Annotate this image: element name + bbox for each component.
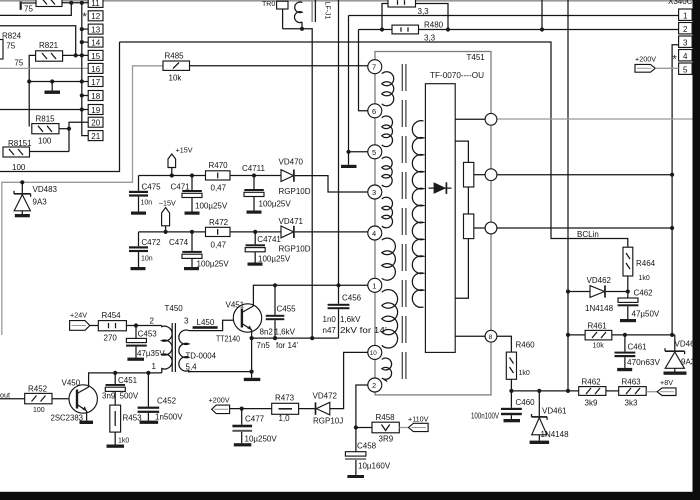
svg-text:8: 8 [489, 334, 493, 341]
svg-text:100n100V: 100n100V [471, 411, 500, 420]
svg-text:100: 100 [33, 407, 45, 414]
svg-text:R473: R473 [275, 394, 295, 403]
svg-text:TT2140: TT2140 [216, 335, 240, 344]
svg-text:R463: R463 [622, 378, 642, 387]
T451 pin 3 [368, 185, 382, 199]
svg-text:R821: R821 [39, 41, 59, 50]
T451 pin 4 [368, 226, 382, 240]
svg-text:1,6kV: 1,6kV [340, 315, 361, 324]
transformer T451 box [375, 52, 491, 395]
svg-text:R452: R452 [28, 385, 48, 394]
resistor R464 1k0 [623, 247, 656, 293]
svg-text:R815: R815 [36, 115, 56, 124]
T451 secondary terminal 2 [485, 169, 497, 181]
wire R452 to base [52, 398, 77, 400]
diode VD470 RGP10D [279, 158, 311, 197]
svg-text:C453: C453 [138, 330, 158, 339]
transistor V451 TT2140 [216, 301, 262, 344]
svg-text:75: 75 [14, 59, 23, 68]
svg-text:0,47: 0,47 [211, 241, 227, 250]
wire pin13 [82, 28, 88, 30]
wire flyback mid terminal to pin3line [497, 174, 672, 176]
svg-text:T451: T451 [467, 53, 486, 62]
ground T451 pin5 [341, 152, 357, 168]
power +200V tag top [635, 55, 679, 73]
svg-text:VD472: VD472 [313, 392, 338, 401]
svg-text:for 14’: for 14’ [276, 341, 298, 350]
capacitor C4711 100u25V [242, 164, 291, 214]
T451 pin 8 [485, 330, 497, 342]
svg-text:3: 3 [372, 188, 376, 197]
power -15V tag [159, 199, 176, 234]
resistor R824 (edge sliver) [0, 32, 24, 68]
svg-text:+200V: +200V [209, 396, 230, 405]
svg-text:10k: 10k [593, 343, 605, 350]
svg-text:X340C: X340C [668, 0, 693, 6]
svg-text:2SC2383: 2SC2383 [51, 414, 84, 423]
wire R485 to T451 pin7 [190, 65, 369, 67]
wire R472 out [230, 230, 281, 234]
ground pin17 net [45, 82, 61, 94]
svg-text:2: 2 [372, 381, 376, 390]
capacitor C4741 100u25V [245, 232, 291, 266]
transformer TR0 [262, 1, 288, 29]
zener VD460 9A3 [664, 335, 700, 375]
svg-text:1: 1 [683, 12, 688, 21]
power +200V tag bottom [209, 396, 272, 414]
svg-text:C471: C471 [171, 183, 191, 192]
svg-text:10µ160V: 10µ160V [358, 462, 391, 471]
wire flyback top terminal [455, 118, 485, 120]
svg-text:17: 17 [91, 78, 100, 87]
capacitor C477 10u250V [232, 409, 277, 447]
svg-text:1k0: 1k0 [519, 370, 530, 377]
svg-text:5: 5 [683, 66, 688, 75]
capacitor C461 470n63V [615, 335, 661, 371]
wire main y42 bus to BCLin [120, 42, 628, 247]
transistor V450 2SC2383 [51, 379, 98, 423]
svg-text:R824: R824 [2, 32, 22, 41]
svg-text:VD462: VD462 [587, 276, 612, 285]
wire x338.5 long vertical [336, 0, 340, 287]
svg-text:R470: R470 [209, 161, 229, 170]
svg-text:12: 12 [91, 12, 100, 21]
svg-text:4: 4 [683, 52, 688, 61]
svg-text:L450: L450 [197, 318, 215, 327]
svg-text:+24V: +24V [70, 311, 87, 320]
wire +15V rail [139, 173, 206, 177]
top border line [0, 0, 700, 2]
svg-text:C456: C456 [342, 294, 362, 303]
svg-text:18: 18 [91, 92, 100, 101]
resistor (75) top-left [21, 0, 62, 14]
wire VD470 to pin3 [295, 176, 368, 192]
svg-text:1,0: 1,0 [279, 414, 291, 423]
svg-text:1: 1 [152, 362, 157, 371]
resistor 3,3 top [382, 0, 448, 30]
resistor R470 0,47 [206, 161, 231, 193]
svg-text:C475: C475 [142, 183, 162, 192]
wire V451 emitter down [250, 330, 254, 374]
svg-text:T450: T450 [165, 304, 184, 313]
svg-text:+8V: +8V [660, 378, 673, 387]
svg-text:2kV for 14’: 2kV for 14’ [340, 326, 387, 335]
wire VD472 to pin10 [330, 352, 368, 408]
svg-text:LF-J1: LF-J1 [324, 2, 331, 20]
svg-text:out: out [0, 391, 10, 400]
svg-text:RGP10D: RGP10D [279, 245, 311, 254]
svg-text:500V: 500V [120, 392, 139, 401]
capacitor C458 10u160V [345, 428, 391, 479]
resistor R480 3,3 [392, 21, 444, 43]
bottom border bar [0, 492, 700, 500]
svg-text:BCLin: BCLin [577, 230, 599, 239]
wire R8151 to node [30, 151, 70, 153]
zener VD483 9A3 [14, 182, 58, 217]
svg-text:7: 7 [372, 63, 376, 72]
wire R824 frame net [0, 26, 76, 56]
transformer T450 TD-0004 [150, 304, 217, 372]
svg-text:16: 16 [91, 65, 100, 74]
svg-text:C462: C462 [634, 289, 654, 298]
svg-text:1N4148: 1N4148 [541, 430, 570, 439]
resistor R815 [32, 115, 59, 146]
svg-text:C455: C455 [277, 305, 297, 314]
svg-text:47µ50V: 47µ50V [632, 310, 660, 319]
svg-text:V450: V450 [62, 379, 81, 388]
inductor LF-J1 [294, 0, 330, 23]
label out [0, 391, 10, 400]
svg-text:+200V: +200V [635, 55, 656, 64]
svg-text:RGP10J: RGP10J [313, 417, 343, 426]
wire R454 to T450 [126, 323, 161, 327]
wire pin2 to R458 node [354, 385, 368, 430]
svg-text:13: 13 [91, 26, 100, 35]
svg-text:+15V: +15V [176, 146, 193, 155]
svg-text:*: * [83, 11, 88, 23]
T451 flyback body [425, 84, 455, 353]
svg-text:11: 11 [91, 0, 100, 8]
resistor R821 [36, 41, 63, 61]
resistor R472 0,47 [206, 218, 231, 250]
svg-text:TR0: TR0 [262, 1, 275, 8]
svg-text:VD470: VD470 [279, 158, 304, 167]
wire emitter rail [252, 336, 339, 340]
T451 core dashes [402, 64, 406, 381]
resistor R462 3k9 [579, 378, 606, 408]
svg-text:+110V: +110V [408, 415, 429, 424]
wire V450 collector up [89, 371, 162, 387]
wire -15V rail [139, 230, 206, 234]
wire pin5 [349, 151, 369, 153]
capacitor C451 3n9 500V [102, 373, 139, 405]
capacitor C462 47u50V [618, 289, 660, 323]
resistor R8151 [3, 139, 32, 172]
svg-text:R464: R464 [636, 259, 656, 268]
wire R821 left to node [29, 55, 35, 126]
wire flyback low terminal to pin3line [497, 227, 672, 229]
svg-text:3: 3 [683, 39, 688, 48]
wire grey y118.5 right [497, 118, 693, 120]
svg-text:14: 14 [91, 39, 100, 48]
resistor R463 3k3 [619, 378, 647, 408]
svg-text:270: 270 [104, 334, 118, 343]
svg-text:100µ25V: 100µ25V [197, 260, 230, 269]
resistor R452 100 [0, 385, 52, 415]
svg-text:10n: 10n [141, 200, 153, 207]
svg-text:2: 2 [683, 25, 688, 34]
wire x568 long vertical [566, 0, 570, 393]
capacitor C455 8n2 1,6kV [257, 285, 299, 350]
resistor R460 1k0 [506, 341, 535, 391]
svg-text:6: 6 [372, 107, 376, 116]
svg-text:3R9: 3R9 [379, 435, 394, 444]
svg-text:21: 21 [91, 132, 100, 141]
wire T450 return to emitter [189, 371, 252, 374]
power +15V tag [168, 146, 193, 178]
wire x542 drop [541, 0, 543, 30]
svg-text:R460: R460 [516, 341, 536, 350]
svg-text:100µ25V: 100µ25V [259, 200, 292, 209]
resistor R485 10k [163, 52, 190, 83]
wire T450 pin3 to V451 base [189, 320, 242, 330]
T451 pin 10 [368, 345, 382, 359]
resistor R473 1,0 [272, 394, 299, 424]
svg-text:1,6kV: 1,6kV [275, 328, 296, 337]
diode VD472 RGP10J [299, 392, 344, 426]
svg-text:TF-0070----OU: TF-0070----OU [430, 71, 484, 80]
capacitor C471 100u25V [171, 176, 228, 215]
svg-text:3k3: 3k3 [625, 399, 638, 408]
svg-text:20: 20 [91, 119, 100, 128]
resistor R453 1k0 [107, 405, 143, 448]
svg-text:C4711: C4711 [242, 164, 266, 173]
resistor R454 270 [98, 311, 126, 343]
right border bar [693, 0, 700, 500]
ground V450 emitter [80, 411, 94, 424]
svg-text:C4741: C4741 [257, 235, 281, 244]
wire pin19 net [0, 107, 88, 111]
T451 secondary winding tall [412, 121, 423, 308]
power +110V tag [399, 415, 428, 432]
ground V451 emitter [244, 372, 260, 381]
svg-text:15: 15 [91, 52, 100, 61]
svg-text:C451: C451 [118, 376, 138, 385]
svg-text:75: 75 [6, 42, 15, 51]
wire flyback pin8 [455, 336, 511, 352]
svg-text:100: 100 [38, 137, 52, 146]
svg-text:R485: R485 [165, 52, 185, 61]
wire pin14 [82, 41, 88, 43]
resistor R461 10k [568, 322, 612, 350]
power +24V tag [70, 311, 99, 331]
svg-text:1: 1 [372, 281, 376, 290]
wire R461 node [612, 333, 675, 337]
svg-text:R453: R453 [123, 414, 143, 423]
svg-text:R480: R480 [424, 21, 444, 30]
svg-text:2: 2 [150, 317, 155, 326]
wire frame bottom left block [0, 42, 120, 172]
capacitor C475 10n [129, 176, 161, 215]
svg-text:10µ250V: 10µ250V [245, 435, 278, 444]
svg-text:VD483: VD483 [33, 185, 58, 194]
T451 secondary terminal 3 [485, 222, 497, 234]
svg-text:R458: R458 [376, 413, 396, 422]
connector X340A pins 11-21 [83, 0, 104, 141]
svg-text:47µ35V: 47µ35V [137, 349, 165, 358]
T451 secondary terminal 1 [485, 113, 497, 125]
svg-text:C461: C461 [628, 343, 648, 352]
svg-text:C477: C477 [245, 415, 265, 424]
svg-text:470n63V: 470n63V [627, 358, 661, 367]
wire left bus x82 [80, 3, 88, 136]
svg-text:VD461: VD461 [542, 407, 567, 416]
svg-text:5,4: 5,4 [186, 363, 198, 372]
svg-text:3: 3 [184, 317, 189, 326]
svg-text:R461: R461 [588, 322, 608, 331]
diode VD471 RGP10D [279, 217, 311, 254]
svg-text:100µ25V: 100µ25V [258, 255, 291, 264]
svg-text:n47: n47 [323, 326, 337, 335]
svg-text:C472: C472 [141, 238, 161, 247]
wire bus y29.5 [359, 27, 679, 31]
svg-text:V451: V451 [226, 301, 245, 310]
svg-text:*: * [673, 54, 678, 66]
svg-text:100µ25V: 100µ25V [195, 202, 228, 211]
capacitor C452 1n500V [138, 373, 184, 424]
svg-text:100: 100 [12, 163, 26, 172]
svg-text:R462: R462 [582, 378, 602, 387]
svg-text:7n5: 7n5 [257, 341, 271, 350]
svg-text:5: 5 [372, 148, 376, 157]
svg-text:3,3: 3,3 [424, 34, 436, 43]
svg-text:75: 75 [24, 5, 33, 14]
capacitor C453 47u35V [126, 326, 165, 361]
wire x358 to pin6 [359, 30, 369, 111]
T451 pin 7 [368, 60, 382, 74]
diode VD462 1N4148 [568, 276, 628, 313]
resistor R458 3R9 [356, 413, 399, 444]
svg-text:C452: C452 [157, 397, 177, 406]
svg-text:10: 10 [370, 350, 378, 357]
T451 box bottom-left leg (grey, behind) [0, 0, 1, 1]
svg-text:1n0: 1n0 [323, 315, 337, 324]
wire VD471 to pin4 [295, 231, 368, 233]
svg-text:1N4148: 1N4148 [585, 304, 614, 313]
svg-text:C460: C460 [516, 398, 536, 407]
wire grey pin16 [0, 67, 88, 69]
wire X340C pin3 drop [670, 45, 679, 337]
wire R815 to pin20 [59, 122, 88, 151]
svg-text:R8151: R8151 [8, 139, 32, 148]
svg-text:C474: C474 [169, 238, 189, 247]
svg-text:3,3: 3,3 [418, 7, 430, 16]
flyback divider chain [455, 141, 485, 298]
wire T450 pin1 [161, 371, 163, 373]
wire TR0 node to emitter net [283, 22, 315, 340]
svg-text:19: 19 [91, 106, 100, 115]
wire ground bus y15.5 [349, 15, 679, 17]
power +8V tag [646, 378, 676, 396]
T451 primary winding [382, 72, 398, 382]
capacitor C474 100u25V [169, 232, 229, 270]
wire R470 out [230, 173, 281, 177]
node BCLin [577, 230, 599, 239]
capacitor C456 1n0 [323, 285, 388, 338]
svg-text:8n2: 8n2 [260, 328, 274, 337]
wire pin18 [82, 95, 88, 97]
connector X340C [668, 0, 693, 75]
T451 pin 2 [368, 378, 382, 392]
svg-text:C458: C458 [357, 442, 377, 451]
wire grey R485 net [2, 66, 163, 335]
T451 pin 5 [368, 145, 382, 159]
svg-text:10k: 10k [169, 74, 183, 83]
svg-text:VD471: VD471 [279, 217, 304, 226]
wire V451 collector line [253, 283, 368, 306]
svg-text:RGP10D: RGP10D [279, 187, 311, 196]
T451 pin 6 [368, 104, 382, 118]
capacitor C460 100n100V [471, 391, 535, 422]
T451 pin 1 [368, 278, 382, 292]
capacitor C472 10n [129, 232, 161, 270]
svg-text:1n500V: 1n500V [155, 413, 183, 422]
svg-text:R472: R472 [209, 218, 229, 227]
svg-text:4: 4 [372, 229, 376, 238]
svg-text:0,47: 0,47 [211, 184, 227, 193]
svg-text:10n: 10n [141, 256, 153, 263]
wire pin17 net [27, 79, 88, 83]
svg-text:3k9: 3k9 [585, 399, 598, 408]
wire x348 ground drop [346, 16, 350, 154]
wire top-left pin11 net [0, 1, 88, 16]
svg-text:TD-0004: TD-0004 [186, 352, 217, 361]
svg-text:R454: R454 [102, 311, 122, 320]
wire R821 to pin15 [63, 53, 89, 57]
svg-text:3n9: 3n9 [102, 392, 116, 401]
diode VD461 1N4148 [530, 391, 569, 444]
wire +8V node rail [509, 389, 578, 393]
svg-text:9A3: 9A3 [33, 198, 48, 207]
diode in flyback body [429, 182, 452, 194]
svg-text:1k0: 1k0 [639, 275, 650, 282]
svg-text:1k0: 1k0 [118, 438, 129, 445]
inductor L450 [193, 318, 218, 329]
wire R462-R463 [606, 390, 619, 392]
svg-text:–15V: –15V [159, 199, 176, 208]
